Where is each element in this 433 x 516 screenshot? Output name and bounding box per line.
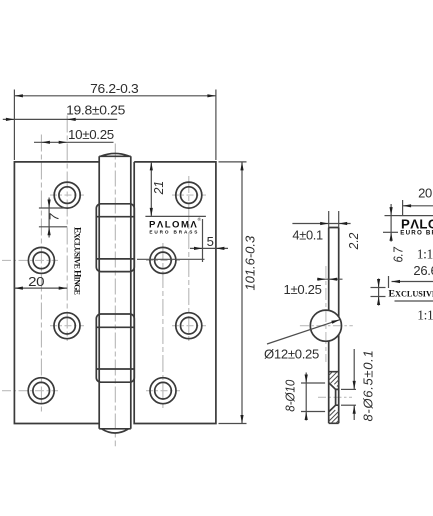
knuckle K1 gap line bottom [96,258,134,260]
svg-text:8-Ø6.5±0.1: 8-Ø6.5±0.1 [361,350,376,421]
centerline hole column right A [188,176,190,341]
svg-text:5: 5 [207,234,214,249]
knuckle K1 (rounded) [96,204,134,272]
svg-text:Ø12±0.25: Ø12±0.25 [264,347,319,362]
svg-text:2.2: 2.2 [346,232,361,250]
svg-text:76.2-0.3: 76.2-0.3 [90,81,138,96]
detail logo band top line [400,215,433,217]
svg-text:1±0.25: 1±0.25 [284,282,322,297]
hole L2 [28,247,54,273]
side bar outline [329,228,339,424]
centerline hole row1 right [172,194,206,196]
dim 21 [145,162,206,217]
svg-text:26.6: 26.6 [413,263,433,278]
knuckle K2 (rounded) [96,314,134,382]
svg-text:EXCLUSIVE HINGE: EXCLUSIVE HINGE [389,288,433,299]
dim 76.2-0.3 [14,81,216,160]
svg-text:4±0.1: 4±0.1 [292,227,323,242]
detail logo PALOMA (clipped) [400,216,433,236]
hole R2 [150,247,176,273]
hatch lines B [329,410,339,423]
svg-text:1:1: 1:1 [417,307,433,322]
pin circle [310,310,341,341]
centerline hole row4 left [2,390,58,392]
hole L3 [54,313,80,339]
dim 4±0.1 [292,211,350,242]
hole R4 [150,378,176,404]
dim 26.6 [389,263,433,288]
centerline hole row3 right [172,325,206,327]
dim 1±0.25 [284,278,343,298]
svg-text:EURO BRASS: EURO BRASS [149,229,198,234]
svg-text:1:1: 1:1 [417,247,433,262]
svg-text:10±0.25: 10±0.25 [68,127,114,142]
dim 20 [14,274,67,290]
svg-text:20.6: 20.6 [418,186,433,201]
hatch lines A [329,372,339,387]
knuckle K2 gap line bottom [96,368,134,370]
centerline hole column left A [66,116,68,342]
barrel top cap [99,153,131,156]
hole L4 [28,378,54,404]
hole R3 [176,313,202,339]
centerline hole column right B [162,243,164,408]
centerline hole row3 left [50,325,84,327]
centerline hole row1 left [50,194,84,196]
dim 10±0.25 [34,127,114,144]
centerline side vertical [325,266,327,362]
dim 20.6 (clipped) [403,186,433,217]
barrel left edge [98,156,100,429]
centerline side horizontal [300,325,353,327]
centerline hole column left B [40,135,42,413]
small dim ticks EXCLUSIVE band [371,279,386,306]
svg-text:19.8±0.25: 19.8±0.25 [66,103,125,118]
hole L1 [54,182,80,208]
centerline section hole [318,396,352,398]
svg-text:7: 7 [47,213,62,221]
svg-text:101.6-0.3: 101.6-0.3 [243,235,258,290]
left leaf outline [14,162,99,424]
barrel right edge [130,156,132,429]
knuckle K2 gap line top [96,326,134,328]
right leaf outline [134,162,216,424]
detail band bottom line [395,300,433,302]
centerline hole row2 right [146,259,180,261]
svg-text:EXCLUSIVE HINGE: EXCLUSIVE HINGE [72,227,82,295]
leader and text Ø12±0.25 [264,320,340,362]
svg-text:6.7: 6.7 [391,246,406,262]
hole R1 [176,182,202,208]
dim 6.7 [383,204,406,263]
knuckle K1 gap line top [96,216,134,218]
centerline hole row2 left [2,259,58,261]
dim 5 [137,219,228,262]
centerline pin axis [114,144,116,447]
section hatch A boundary [329,372,339,412]
dim 8-Ø6.5±0.1 [341,349,376,422]
svg-text:8-Ø10: 8-Ø10 [282,379,297,412]
logo PALOMA on right leaf [149,216,202,235]
dim 7 [39,198,67,238]
svg-text:EURO BRASS: EURO BRASS [400,230,433,237]
dim 8-Ø10 [282,373,325,421]
svg-text:21: 21 [151,181,166,195]
dim 101.6-0.3 [219,162,258,424]
barrel bottom cap [99,429,131,433]
svg-text:20: 20 [28,274,44,289]
dim 19.8±0.25 [3,103,125,121]
centerline hole row4 right [146,390,180,392]
